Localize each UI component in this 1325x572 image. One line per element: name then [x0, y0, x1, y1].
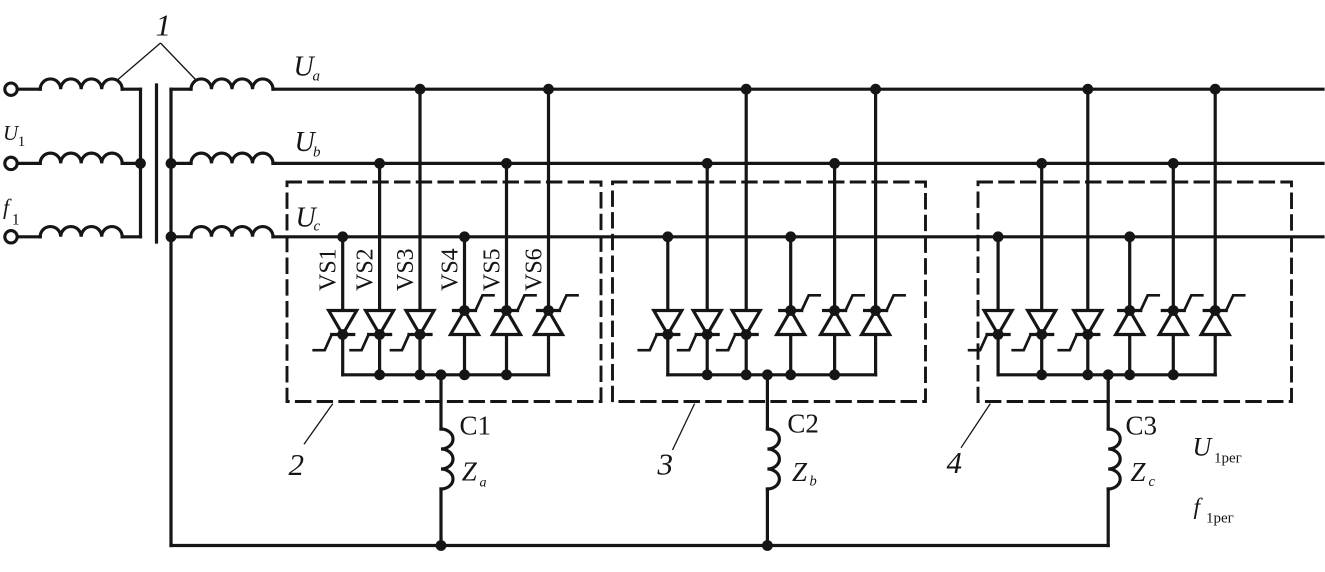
- svg-text:a: a: [313, 69, 321, 85]
- wire: [171, 88, 191, 91]
- wire: [18, 162, 41, 165]
- thyristor VS4 (box 3) cathode-up: [780, 309, 802, 312]
- thyristor VS4 (box 4) cathode-up: [1119, 309, 1141, 312]
- wire bottom return bus: [171, 544, 1108, 547]
- wire: [1107, 489, 1110, 546]
- thyristor VS5 (box 3) cathode-up: [824, 309, 846, 312]
- wire bus Ua: [273, 88, 1323, 91]
- thyristor VS3 (box 2) cathode-down: [406, 311, 434, 335]
- dashed enclosure box 2: [287, 182, 601, 402]
- pointer lines for transformer label 1: [118, 43, 196, 80]
- secondary winding phase 1: [191, 79, 273, 89]
- thyristor VS3 (box 3) cathode-down: [732, 311, 760, 335]
- svg-text:1: 1: [18, 134, 26, 150]
- wire: [766, 489, 769, 546]
- wire bus Uc: [273, 235, 1323, 238]
- wire thyristor branch 4 of box 2: [463, 237, 466, 375]
- wire: [18, 88, 41, 91]
- wire thyristor branch 1 of box 4: [996, 237, 999, 375]
- svg-text:VS6: VS6: [522, 248, 548, 291]
- svg-text:b: b: [810, 474, 817, 490]
- load inductor Z (box 2): [441, 429, 453, 489]
- svg-text:1: 1: [156, 8, 172, 43]
- svg-text:Z: Z: [792, 457, 808, 487]
- wire: [122, 88, 140, 91]
- dashed enclosure box 4: [978, 182, 1292, 402]
- svg-text:c: c: [314, 219, 321, 235]
- wire thyristor branch 3 of box 3: [745, 89, 748, 375]
- svg-text:C2: C2: [787, 409, 819, 439]
- wire: [171, 162, 191, 165]
- wire thyristor branch 6 of box 2: [547, 89, 550, 375]
- pointer line for box label 4: [961, 404, 990, 448]
- wire thyristor branch 1 of box 2: [341, 237, 344, 375]
- wire thyristor branch 2 of box 2: [378, 163, 381, 374]
- wire: [18, 235, 41, 238]
- thyristor VS2 (box 2) cathode-down: [366, 311, 394, 335]
- thyristor VS6 (box 3) cathode-up: [865, 309, 887, 312]
- thyristor VS5 (box 2) cathode-up: [496, 309, 518, 312]
- wire thyristor branch 5 of box 2: [505, 163, 508, 374]
- primary winding phase 1: [40, 79, 122, 89]
- input terminal phase 3: [5, 231, 17, 243]
- svg-text:VS3: VS3: [393, 248, 419, 291]
- svg-text:3: 3: [657, 447, 674, 482]
- primary winding phase 2: [40, 153, 122, 163]
- wire thyristor branch 5 of box 4: [1172, 163, 1175, 374]
- svg-text:U: U: [1193, 433, 1214, 462]
- wire load drop of box 3: [766, 375, 769, 429]
- load inductor Z (box 3): [767, 429, 779, 489]
- svg-text:a: a: [480, 476, 487, 491]
- svg-text:c: c: [1149, 474, 1156, 490]
- svg-text:2: 2: [289, 447, 305, 482]
- thyristor VS4 (box 2) cathode-up: [454, 309, 476, 312]
- wire: [122, 162, 140, 165]
- svg-text:VS2: VS2: [353, 248, 379, 291]
- wire bus Ub: [273, 162, 1323, 165]
- wire thyristor branch 2 of box 3: [706, 163, 709, 374]
- pointer line for box label 3: [673, 404, 695, 450]
- secondary winding phase 3: [191, 227, 273, 237]
- svg-text:4: 4: [947, 445, 963, 480]
- svg-text:C1: C1: [460, 410, 492, 440]
- load inductor Z (box 4): [1108, 429, 1120, 489]
- wire thyristor branch 3 of box 2: [418, 89, 421, 375]
- wire thyristor branch 4 of box 4: [1128, 237, 1131, 375]
- wire common cathode bus of box 2: [343, 373, 549, 376]
- thyristor VS6 (box 2) cathode-up: [538, 309, 560, 312]
- svg-text:VS1: VS1: [316, 248, 342, 291]
- primary winding phase 3: [40, 227, 122, 237]
- svg-text:Z: Z: [1131, 457, 1147, 487]
- svg-text:Z: Z: [462, 457, 478, 487]
- wire load drop of box 4: [1107, 375, 1110, 429]
- input terminal phase 1: [5, 83, 17, 95]
- svg-text:1: 1: [12, 212, 20, 229]
- thyristor VS2 (box 4) cathode-down: [1028, 311, 1056, 335]
- svg-text:b: b: [313, 145, 321, 161]
- svg-text:1рег: 1рег: [1206, 511, 1234, 527]
- wire thyristor branch 3 of box 4: [1086, 89, 1089, 375]
- thyristor VS2 (box 3) cathode-down: [693, 311, 721, 335]
- wire secondary star bus / neutral down lead: [169, 89, 172, 545]
- svg-text:1рег: 1рег: [1214, 451, 1242, 467]
- svg-text:VS4: VS4: [438, 248, 464, 291]
- svg-text:VS5: VS5: [480, 248, 506, 291]
- wire thyristor branch 5 of box 3: [833, 163, 836, 374]
- wire thyristor branch 2 of box 4: [1040, 163, 1043, 374]
- wire thyristor branch 6 of box 4: [1214, 89, 1217, 375]
- thyristor VS1 (box 3) cathode-down: [654, 311, 682, 335]
- wire: [439, 489, 442, 546]
- node dots on buses: [135, 84, 1221, 551]
- thyristor VS6 (box 4) cathode-up: [1204, 309, 1226, 312]
- wire common cathode bus of box 4: [998, 373, 1215, 376]
- thyristor VS1 (box 4) cathode-down: [984, 311, 1012, 335]
- svg-text:C3: C3: [1126, 410, 1158, 440]
- transformer core: [155, 85, 158, 242]
- wire thyristor branch 6 of box 3: [874, 89, 877, 375]
- wire thyristor branch 4 of box 3: [789, 237, 792, 375]
- thyristor VS3 (box 4) cathode-down: [1074, 311, 1102, 335]
- secondary winding phase 2: [191, 153, 273, 163]
- pointer line for box label 2: [304, 404, 333, 445]
- wire: [122, 235, 140, 238]
- wire common cathode bus of box 3: [668, 373, 876, 376]
- dashed enclosure box 3: [613, 182, 926, 402]
- thyristor VS5 (box 4) cathode-up: [1162, 309, 1184, 312]
- wire thyristor branch 1 of box 3: [666, 237, 669, 375]
- wire: [171, 235, 191, 238]
- thyristor VS1 (box 2) cathode-down: [329, 311, 357, 335]
- input terminal phase 2: [5, 157, 17, 169]
- wire load drop of box 2: [439, 375, 442, 429]
- wire primary star bus: [139, 89, 142, 237]
